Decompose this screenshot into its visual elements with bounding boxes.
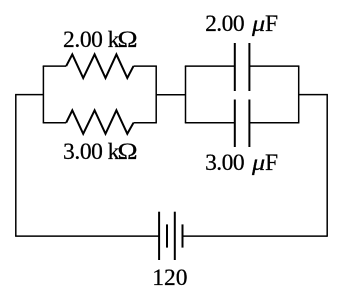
capacitor C2 3.00 uF plates xyxy=(234,100,236,148)
wire: outer left vertical xyxy=(15,95,17,237)
wire: link between resistor box and capacitor box xyxy=(156,94,185,96)
wire: capacitor top branch left stub xyxy=(185,65,235,67)
wire: left lead into resistor box xyxy=(15,94,43,96)
svg-text:Ω: Ω xyxy=(118,139,138,165)
wire: capacitor bottom branch right stub xyxy=(249,122,299,124)
battery V1 short plate 1 xyxy=(166,224,168,247)
svg-text:2.00: 2.00 xyxy=(205,11,244,37)
label: 2.00 uF value of capacitor C1 xyxy=(205,11,278,37)
wire: outer right vertical xyxy=(326,95,328,237)
svg-text:Ω: Ω xyxy=(118,26,138,52)
svg-text:120: 120 xyxy=(152,265,187,291)
battery V1 short plate 2 xyxy=(182,224,184,247)
label: 3.00 kOhm value of resistor R2 xyxy=(63,139,138,165)
wire: capacitor box left vertical xyxy=(185,66,187,123)
svg-text:μ: μ xyxy=(251,11,265,36)
resistor R2 3.00 kOhm zigzag xyxy=(66,110,133,134)
wire: resistor box left vertical xyxy=(42,66,44,123)
svg-text:F: F xyxy=(265,11,278,37)
battery V1 long plate 2 xyxy=(174,212,176,260)
wire: bottom right segment from battery xyxy=(183,235,328,237)
wire: resistor bottom branch left stub xyxy=(43,122,66,124)
svg-text:3.00: 3.00 xyxy=(205,150,244,176)
svg-text:F: F xyxy=(265,150,278,176)
wire: resistor box right vertical xyxy=(155,66,157,123)
wire: resistor bottom branch right stub xyxy=(134,122,157,124)
wire: right lead from capacitor box xyxy=(299,94,328,96)
svg-text:3.00: 3.00 xyxy=(63,139,103,165)
wire: resistor top branch left stub xyxy=(43,65,66,67)
svg-text:2.00: 2.00 xyxy=(63,27,103,53)
wire: capacitor box right vertical xyxy=(298,66,300,123)
wire: capacitor bottom branch left stub xyxy=(185,122,235,124)
wire: bottom left segment to battery xyxy=(15,235,159,237)
wire: capacitor top branch right stub xyxy=(249,65,299,67)
battery V1 long plate 1 xyxy=(158,212,160,260)
svg-text:μ: μ xyxy=(251,150,265,175)
capacitor C1 2.00 uF plates xyxy=(234,43,236,91)
label: 2.00 kOhm value of resistor R1 xyxy=(63,26,138,52)
label: 3.00 uF value of capacitor C2 xyxy=(205,150,278,176)
resistor R1 2.00 kOhm zigzag xyxy=(66,54,133,78)
wire: resistor top branch right stub xyxy=(134,65,157,67)
